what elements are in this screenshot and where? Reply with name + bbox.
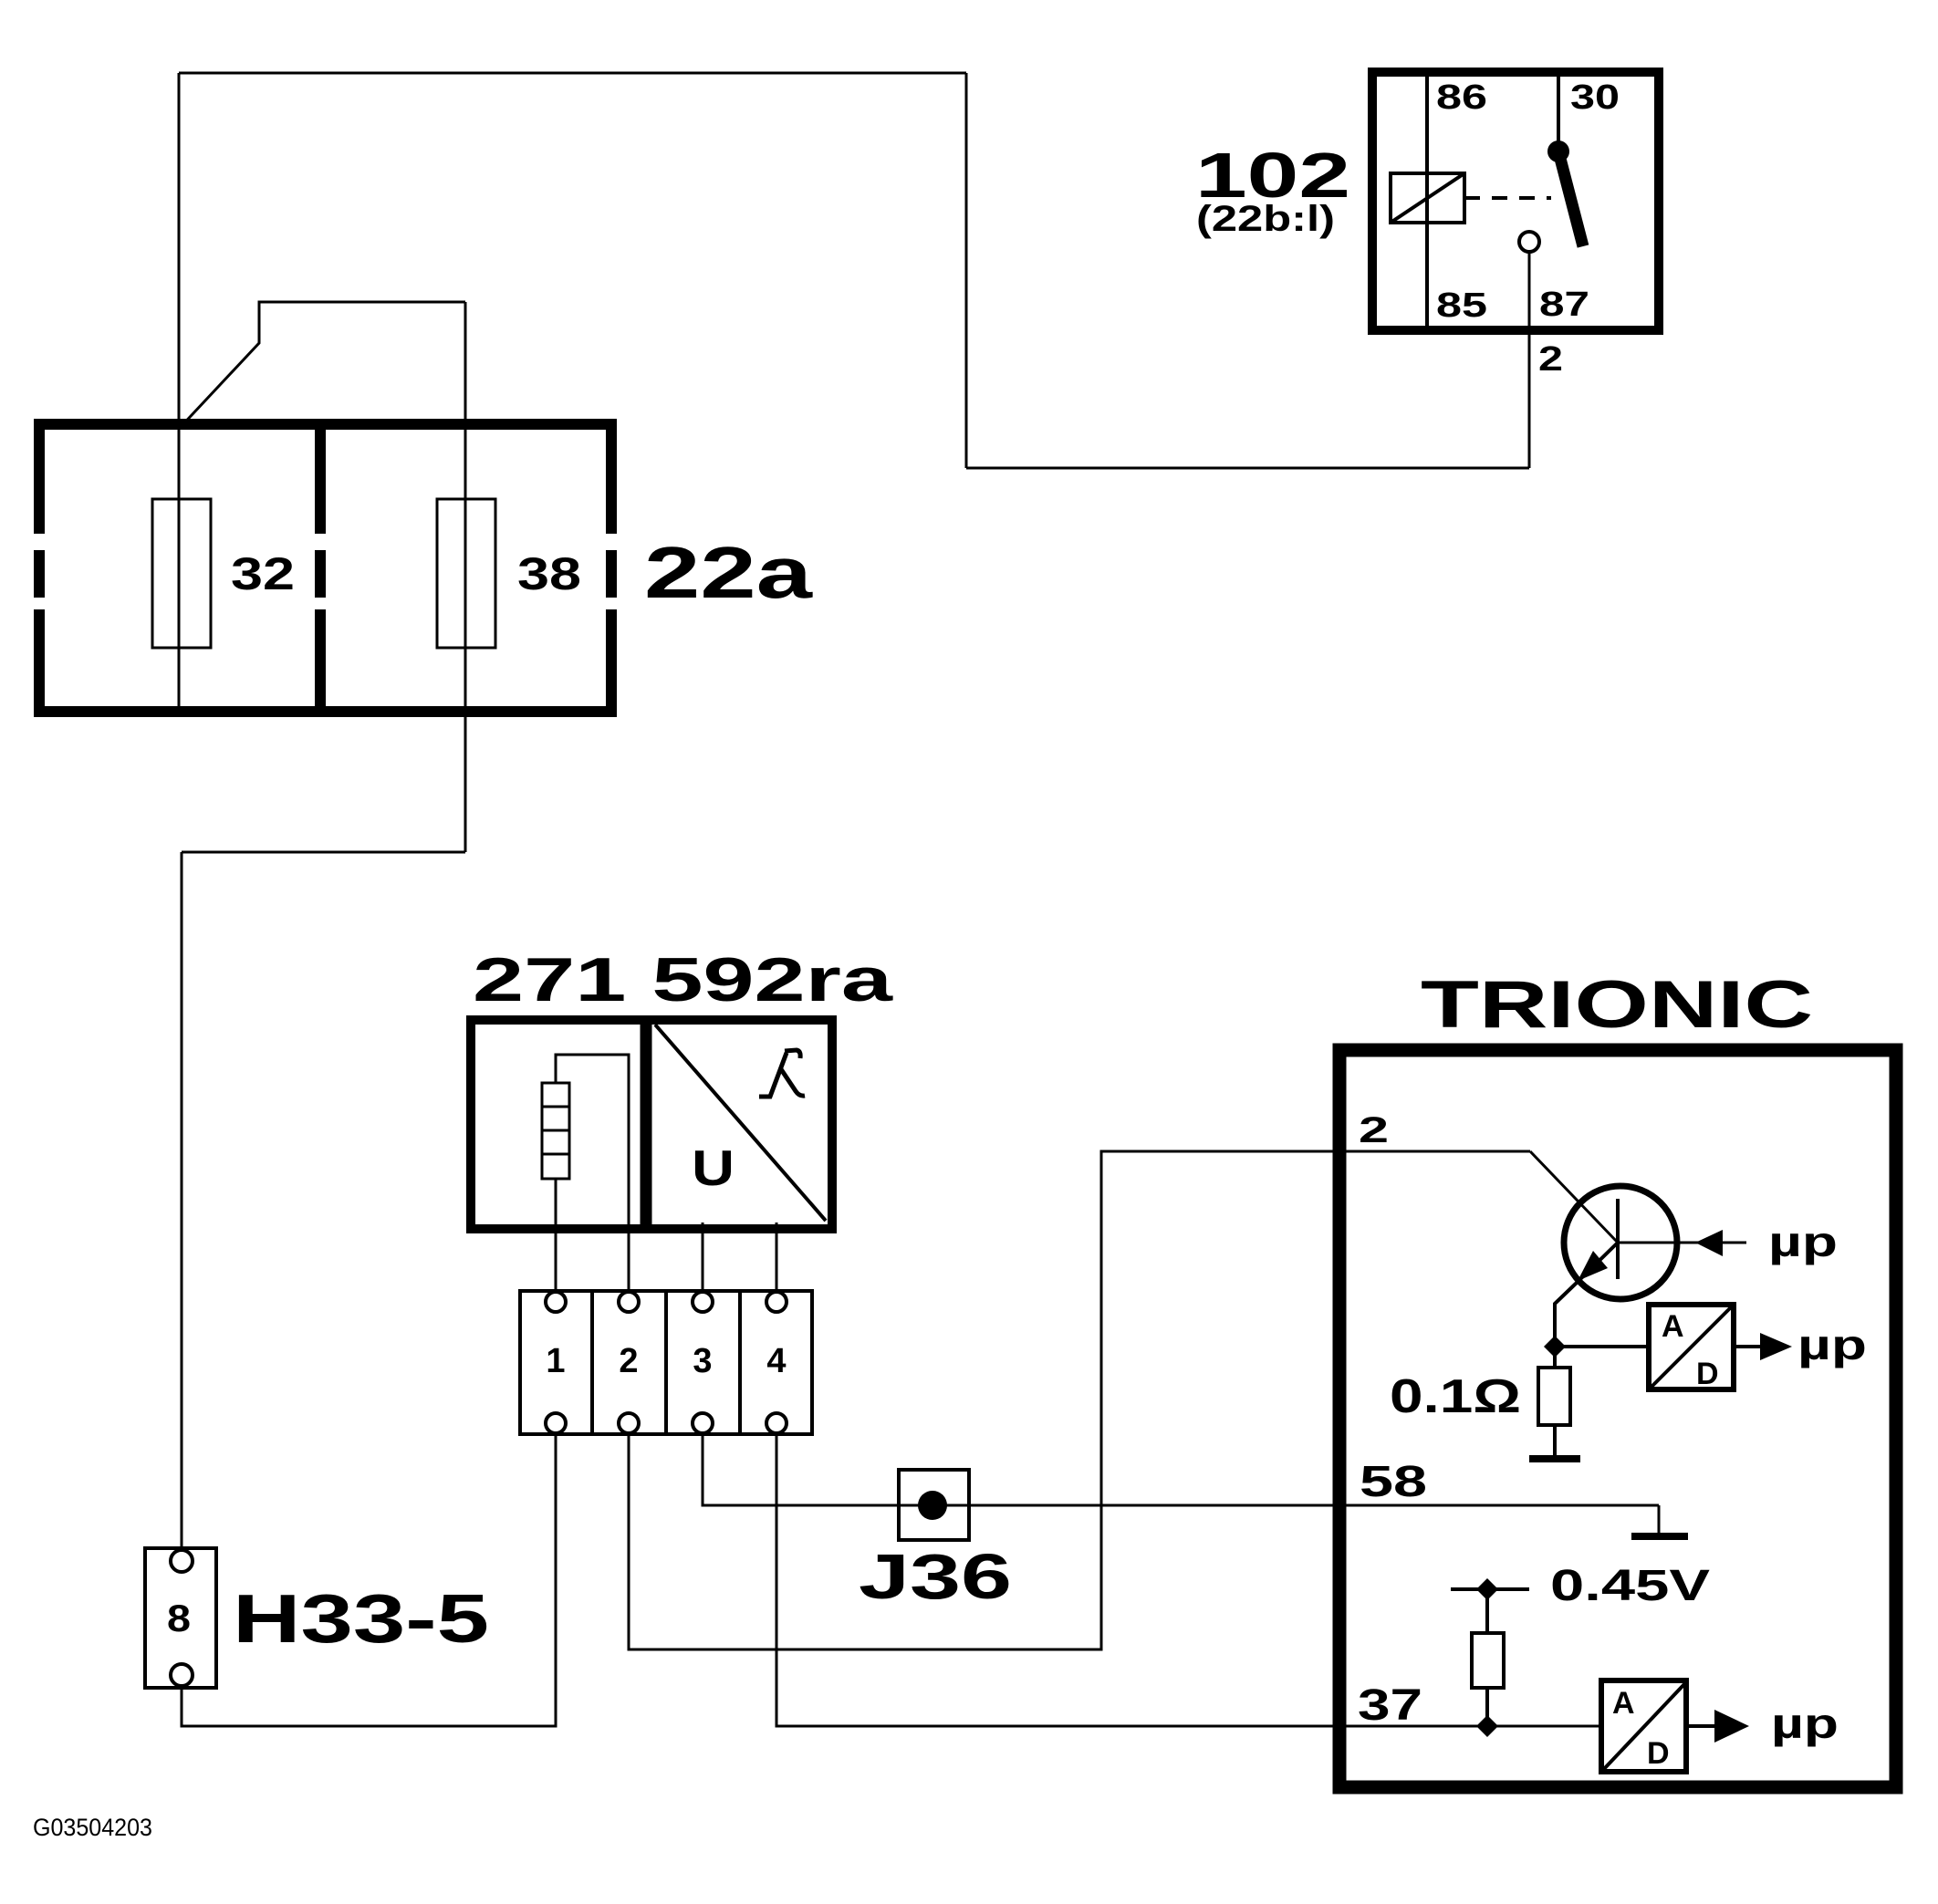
svg-text:85: 85 <box>1436 286 1487 325</box>
transistor Q1 <box>1564 1186 1677 1299</box>
wire: vertical drop right of top run <box>965 73 968 468</box>
svg-text:32: 32 <box>231 548 295 599</box>
svg-text:38: 38 <box>517 548 581 599</box>
emitter with arrow <box>1578 1243 1618 1282</box>
collector line <box>1618 1242 1746 1244</box>
sensor cell diagonal <box>655 1025 826 1221</box>
0.45V reference <box>1451 1587 1529 1591</box>
resistor pull-up <box>1485 1589 1489 1633</box>
svg-text:58: 58 <box>1360 1458 1427 1506</box>
heater element <box>542 1083 569 1179</box>
fuse box 22a <box>34 419 617 717</box>
svg-text:µp: µp <box>1768 1218 1838 1265</box>
A/D converter 1 <box>1649 1305 1734 1389</box>
ground at 58 <box>1658 1505 1661 1533</box>
component 271 592ra <box>471 945 894 1302</box>
ground under resistor <box>1553 1425 1557 1456</box>
relay 102 <box>1195 72 1659 379</box>
wires: component to connector pins <box>628 1229 630 1302</box>
relay contact 87 <box>1519 232 1539 252</box>
wire: pin 2 to TRIONIC 2 <box>629 1151 1530 1649</box>
wire: horizontal run to relay pin 2 <box>966 467 1529 470</box>
heater top wire <box>556 1055 629 1233</box>
resistor 0.1 ohm <box>1553 1347 1557 1368</box>
wire to A/D 1 <box>1555 1345 1646 1348</box>
relay switch pivot <box>1547 140 1569 162</box>
relay coil <box>1391 173 1464 223</box>
svg-text:µp: µp <box>1797 1321 1867 1368</box>
svg-text:0.45V: 0.45V <box>1550 1562 1710 1610</box>
wire: diagonal branch at fuse box top <box>179 302 465 429</box>
wire: vertical down to H33-5 <box>181 852 183 1551</box>
connector H33-5 <box>145 1548 489 1688</box>
wire: pin 4 to TRIONIC 37 <box>776 1434 1599 1726</box>
wire: relay pin 87 drop <box>1528 252 1531 468</box>
wire: pin 3 to TRIONIC 58 <box>703 1434 1659 1505</box>
A/D 2 output to uP <box>1689 1724 1714 1728</box>
svg-text:0.1Ω: 0.1Ω <box>1390 1370 1521 1423</box>
relay pin 30 lead <box>1557 72 1560 151</box>
fuse 32 <box>152 499 211 648</box>
relay switch blade <box>1558 151 1583 246</box>
splice J36 <box>859 1470 1012 1612</box>
wire to transistor base <box>1530 1151 1618 1243</box>
fuse 38 <box>437 499 495 648</box>
lambda glyph <box>759 1050 805 1097</box>
svg-text:2: 2 <box>1538 340 1563 379</box>
svg-text:2: 2 <box>619 1342 638 1380</box>
svg-text:A: A <box>1612 1686 1635 1721</box>
relay coil branch 86-85 <box>1425 72 1429 330</box>
relay actuating dashed link <box>1464 196 1551 200</box>
svg-text:1: 1 <box>546 1342 565 1380</box>
junction node at 37 <box>1476 1715 1498 1737</box>
svg-text:3: 3 <box>693 1342 712 1380</box>
wire: H33-5 to pin 1 <box>182 1434 556 1726</box>
ECU TRIONIC <box>1339 968 1896 1787</box>
svg-text:22a: 22a <box>644 532 813 613</box>
svg-text:37: 37 <box>1358 1681 1422 1730</box>
heater bottom wire <box>555 1179 557 1302</box>
svg-text:G03504203: G03504203 <box>33 1814 152 1841</box>
svg-text:(22b:l): (22b:l) <box>1196 199 1335 239</box>
junction node <box>1544 1336 1566 1358</box>
svg-text:D: D <box>1696 1357 1719 1391</box>
svg-text:TRIONIC: TRIONIC <box>1421 968 1813 1042</box>
divider <box>641 1020 652 1229</box>
wire: relay87 top run horizontal <box>179 72 966 75</box>
svg-text:2: 2 <box>1359 1110 1389 1150</box>
svg-text:D: D <box>1647 1736 1670 1771</box>
svg-text:J36: J36 <box>859 1541 1012 1612</box>
svg-text:86: 86 <box>1436 78 1487 117</box>
svg-text:8: 8 <box>167 1597 191 1639</box>
svg-text:30: 30 <box>1570 78 1620 117</box>
svg-text:271 592ra: 271 592ra <box>473 945 894 1014</box>
A/D 1 output to uP <box>1736 1345 1760 1348</box>
svg-text:µp: µp <box>1771 1700 1839 1747</box>
svg-text:87: 87 <box>1539 286 1589 324</box>
svg-text:H33-5: H33-5 <box>233 1580 489 1657</box>
wire: left vertical feed to fuse 32 <box>178 73 181 707</box>
wire: horizontal below fuse box <box>182 851 465 854</box>
svg-text:U: U <box>692 1139 735 1196</box>
A/D converter 2 <box>1601 1680 1686 1772</box>
base control arrow from uP <box>1695 1230 1723 1256</box>
connector 1-4 <box>520 1291 812 1434</box>
wire: vertical through fuse 38 <box>464 302 467 852</box>
svg-text:A: A <box>1662 1309 1684 1344</box>
svg-text:4: 4 <box>766 1342 786 1380</box>
pin circles bottom <box>546 1413 566 1433</box>
pin circles top <box>546 1292 566 1312</box>
